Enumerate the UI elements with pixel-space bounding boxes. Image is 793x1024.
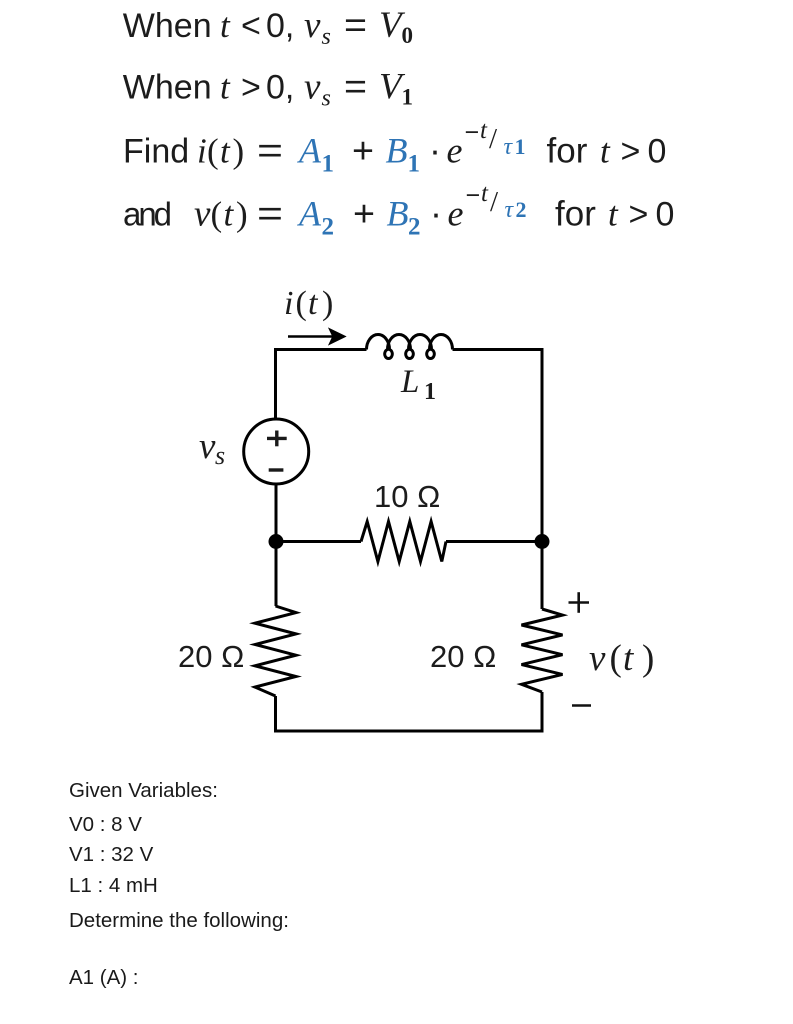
svg-text:+: + [353, 193, 375, 234]
svg-text:i: i [284, 285, 293, 322]
svg-text:1: 1 [322, 151, 335, 178]
svg-text:e: e [448, 194, 464, 234]
svg-text:<: < [241, 7, 261, 45]
svg-text:2: 2 [408, 214, 421, 241]
svg-text:B: B [386, 131, 408, 171]
svg-text:v: v [304, 5, 321, 46]
svg-text:): ) [322, 285, 333, 322]
svg-text:10 Ω: 10 Ω [374, 479, 440, 514]
svg-text:Find: Find [123, 133, 189, 171]
svg-text:When: When [123, 69, 212, 107]
svg-text:v: v [589, 638, 606, 679]
svg-text:for: for [547, 132, 588, 171]
svg-text:1: 1 [515, 134, 526, 159]
svg-text:=: = [344, 66, 367, 107]
svg-text:A: A [297, 194, 322, 234]
svg-text:): ) [236, 195, 248, 234]
svg-text:>: > [241, 69, 261, 107]
svg-text:(: ( [207, 132, 219, 171]
svg-text:(: ( [296, 285, 307, 322]
svg-text:v: v [199, 426, 216, 467]
svg-text:+: + [352, 130, 374, 171]
svg-text:s: s [215, 441, 225, 470]
svg-text:B: B [387, 194, 409, 234]
svg-text:=: = [257, 193, 283, 234]
svg-text:/: / [489, 123, 498, 155]
svg-text:): ) [642, 638, 654, 679]
svg-text:s: s [322, 86, 331, 112]
svg-text:−: − [466, 182, 481, 210]
svg-text:t: t [220, 6, 231, 45]
svg-text:t: t [220, 68, 231, 107]
svg-text:=: = [344, 4, 367, 45]
svg-text:t: t [224, 195, 235, 234]
svg-text:2: 2 [516, 197, 527, 222]
svg-text:−: − [465, 119, 480, 147]
svg-text:A: A [297, 131, 322, 171]
svg-text:=: = [257, 130, 283, 171]
svg-text:(: ( [610, 638, 622, 679]
svg-text:0: 0 [402, 23, 414, 48]
svg-text:t: t [608, 195, 619, 234]
svg-text:i: i [197, 132, 207, 171]
svg-text:20 Ω: 20 Ω [430, 639, 496, 674]
svg-text:t: t [308, 285, 319, 322]
svg-text:t: t [623, 638, 635, 679]
svg-text:v: v [304, 67, 321, 108]
svg-text:>: > [629, 196, 649, 234]
svg-text:(: ( [211, 195, 223, 234]
svg-text:0: 0 [648, 133, 667, 171]
svg-text:>: > [621, 133, 641, 171]
svg-text:When: When [123, 7, 212, 45]
svg-text:t: t [481, 180, 489, 207]
svg-text:1: 1 [424, 379, 436, 405]
svg-text:1: 1 [402, 85, 414, 110]
svg-text:and: and [123, 196, 172, 233]
svg-text:): ) [233, 132, 245, 171]
svg-text:t: t [480, 117, 488, 144]
svg-text:1: 1 [408, 151, 421, 178]
svg-text:t: t [220, 132, 231, 171]
svg-text:/: / [490, 186, 499, 218]
svg-text:e: e [447, 131, 463, 171]
svg-text:v: v [194, 194, 211, 235]
svg-text:L: L [400, 364, 419, 400]
svg-text:·: · [430, 193, 442, 234]
svg-text:0: 0 [656, 196, 675, 234]
svg-text:2: 2 [322, 214, 335, 241]
svg-text:20 Ω: 20 Ω [178, 639, 244, 674]
svg-text:0,: 0, [266, 7, 294, 45]
svg-text:τ: τ [505, 197, 515, 223]
svg-text:t: t [600, 132, 611, 171]
svg-text:0,: 0, [266, 69, 294, 107]
svg-text:·: · [429, 130, 441, 171]
svg-text:s: s [322, 24, 331, 50]
svg-text:for: for [555, 195, 596, 234]
svg-text:τ: τ [504, 134, 514, 160]
